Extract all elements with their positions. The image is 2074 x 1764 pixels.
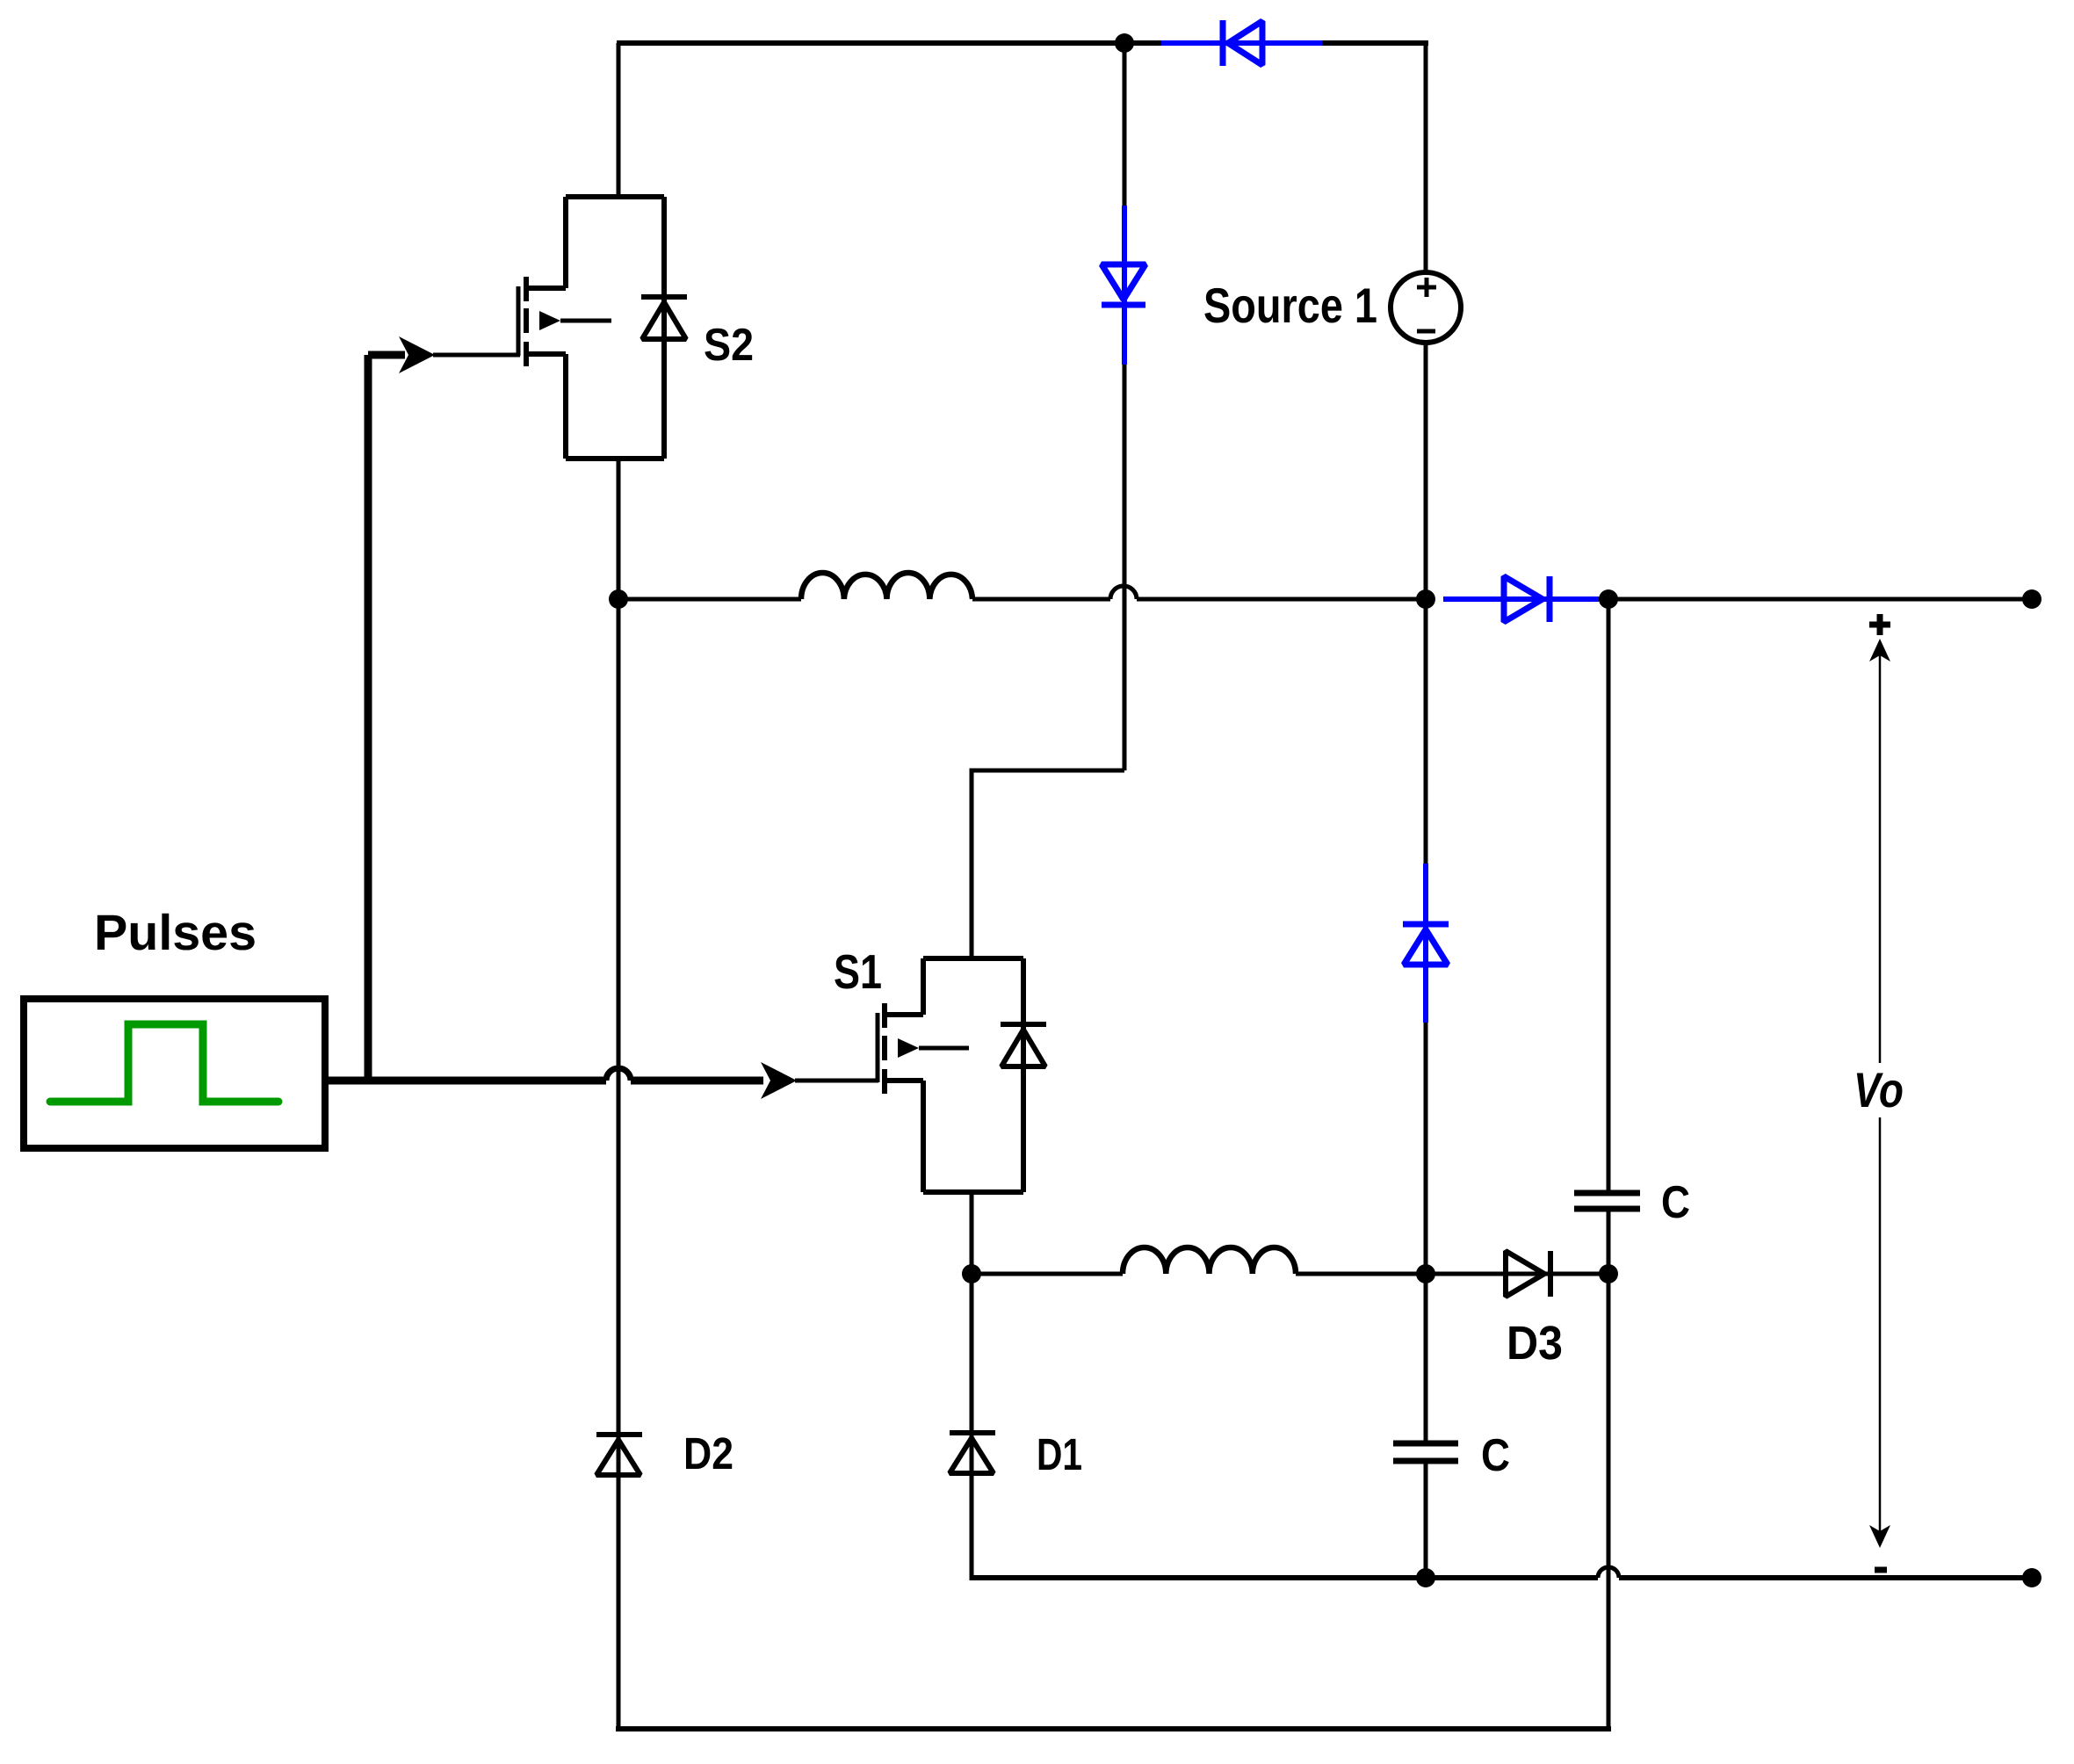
wire hop over x1831 (1598, 1567, 1619, 1578)
diode blue top (pointing left) (1223, 20, 1262, 66)
wire jog to S1 drain (972, 770, 1124, 961)
wire below source1 (1424, 343, 1428, 599)
node (1106,1450) (962, 1264, 981, 1283)
source plus sign (1417, 278, 1436, 297)
wire bus y682: node A to inductor (618, 597, 801, 602)
S1 gate arrowhead (761, 1062, 797, 1099)
wire bus to + terminal (1599, 597, 2032, 602)
diode D1 line (970, 1274, 974, 1580)
pulse generator box (24, 999, 325, 1148)
transistor S2 (518, 197, 687, 459)
S2 gate arrowhead (399, 336, 435, 373)
output - terminal dot (2022, 1568, 2041, 1587)
source minus sign (1417, 329, 1435, 334)
wire bottom rail to - terminal (1619, 1575, 2032, 1580)
transistor S1 (878, 958, 1046, 1192)
wire lower bus right (1296, 1272, 1426, 1276)
Vo arrow line upper (1879, 655, 1882, 1063)
Vo arrow bottom head (1869, 1525, 1890, 1548)
S1 body diode (1001, 1024, 1046, 1066)
inductor L2 (1123, 1247, 1296, 1274)
wire lower bus left (972, 1272, 1123, 1276)
wire x1831 node down to bottom rail (1607, 1274, 1611, 1729)
wire capacitor C lower bottom lead (1424, 1464, 1428, 1578)
inductor L1 (801, 573, 972, 599)
node (1831,1450) (1599, 1264, 1618, 1283)
capacitor C lower plates (1393, 1443, 1458, 1461)
svg-text:Pulses: Pulses (94, 905, 257, 961)
wire hop over x1279 (1110, 586, 1137, 599)
diode D1 symbol (950, 1433, 995, 1473)
thin lead arrow to S1 gate (795, 1079, 878, 1083)
node (1623,1796) (1416, 1568, 1435, 1587)
wire blue diode column lower black (1123, 365, 1127, 770)
wire bus y682: hop to source column (1137, 597, 1426, 602)
node A (704,682) (609, 589, 628, 609)
wire blue diode column blue (1122, 206, 1127, 365)
svg-text:S2: S2 (704, 320, 754, 371)
thick gate wire to S1 arrow (631, 1077, 763, 1085)
wire top rail left segment (617, 40, 1161, 46)
Vo arrow line lower (1879, 1117, 1882, 1532)
S2 gate bar (517, 286, 521, 356)
node (1831,682) (1599, 589, 1618, 609)
diode D3 (pointing right) (1506, 1251, 1550, 1297)
node top (1115, 33, 1134, 53)
green pulse waveform (50, 1024, 278, 1102)
plus sign output (1869, 614, 1890, 635)
diode blue (pointing up) (1403, 924, 1449, 965)
S1 gate bar (876, 1013, 880, 1082)
S2 body arrow (539, 311, 560, 330)
wire blue output diode segment (1443, 596, 1599, 602)
wire source1 column upper (1424, 40, 1428, 274)
node (1623,1450) (1416, 1264, 1435, 1283)
wire capacitor C output bottom lead (1607, 1211, 1611, 1274)
S1 channel segments (882, 1003, 887, 1094)
node (1623,682) (1416, 589, 1435, 609)
svg-text:C: C (1661, 1177, 1690, 1228)
diode blue mid (pointing down) (1102, 264, 1145, 305)
wire bottom-most rail (616, 1726, 1611, 1731)
wire blue diode column2 blue (1423, 864, 1428, 1023)
wire top rail right segment (1322, 40, 1428, 46)
S1 body arrow (898, 1038, 919, 1058)
svg-text:D2: D2 (683, 1428, 733, 1478)
source U1 circle (1391, 272, 1461, 343)
svg-text:D1: D1 (1037, 1429, 1082, 1479)
svg-text:Vo: Vo (1854, 1062, 1904, 1117)
diode D2 symbol (596, 1435, 642, 1475)
svg-text:Source 1: Source 1 (1203, 278, 1377, 333)
wire capacitor C output top lead (1607, 599, 1611, 1190)
wire top rail blue segment (1161, 40, 1322, 46)
wire blue diode column2 lower black (1424, 1023, 1428, 1274)
wire S2 source down to node (617, 459, 621, 599)
diode blue output (pointing right) (1504, 576, 1550, 622)
thick wire hop over x704 (606, 1068, 631, 1081)
wire blue diode column upper black (1123, 43, 1127, 206)
svg-text:S1: S1 (834, 944, 882, 999)
thick gate wire S2 horizontal (368, 351, 405, 359)
wire blue diode column2 upper black (1424, 599, 1428, 864)
wire D3 segment (1426, 1272, 1608, 1276)
thin lead arrow to S2 gate (433, 353, 520, 358)
S2 body diode (641, 297, 687, 339)
svg-text:C: C (1481, 1430, 1510, 1481)
wire bus y682: inductor to hop (972, 597, 1110, 602)
Vo arrow top head (1869, 639, 1890, 661)
capacitor C output plates (1574, 1193, 1640, 1209)
wire capacitor C lower top lead (1424, 1274, 1428, 1441)
wire S2 drain top (617, 43, 621, 199)
thick gate wire vertical (365, 355, 372, 1084)
thick gate wire horizontal (325, 1077, 606, 1085)
diode D2 line (617, 599, 621, 1729)
svg-text:D3: D3 (1507, 1317, 1563, 1370)
wire S1 source down (970, 1192, 974, 1274)
output + terminal dot (2022, 589, 2041, 609)
wire bottom output rail (972, 1575, 1598, 1580)
S2 channel segments (524, 277, 529, 366)
minus sign output (1875, 1567, 1887, 1573)
